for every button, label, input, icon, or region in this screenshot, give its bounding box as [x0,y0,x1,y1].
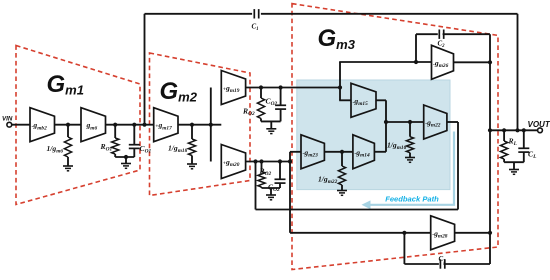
svg-text:VOUT: VOUT [528,120,550,129]
svg-text:Feedback Path: Feedback Path [385,194,439,203]
svg-text:VIN: VIN [2,116,13,123]
